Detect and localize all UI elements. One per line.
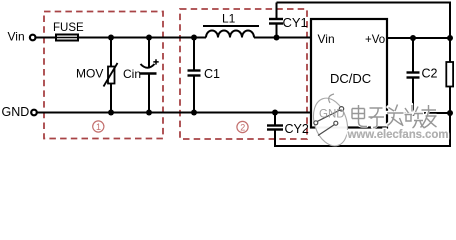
wire bottom rail: [37, 112, 311, 114]
junction C1 top: [191, 35, 197, 41]
svg-text:C2: C2: [422, 67, 438, 81]
svg-text:C1: C1: [204, 67, 220, 81]
watermark chinese text: [352, 104, 437, 128]
terminal GND: [31, 110, 37, 116]
svg-text:FUSE: FUSE: [53, 22, 84, 34]
junction Cin top: [146, 35, 152, 41]
wire +Vo rail: [387, 37, 451, 39]
svg-text:2: 2: [240, 123, 245, 133]
capacitor CY1: [276, 3, 278, 20]
svg-text:Cin: Cin: [123, 67, 141, 81]
dc-dc converter U1: [311, 19, 387, 128]
watermark logo mascot: [308, 94, 354, 150]
capacitor CY2: [274, 113, 276, 126]
capacitor C2: [412, 38, 414, 73]
junction MOV bottom: [108, 110, 114, 116]
svg-text:GND: GND: [2, 105, 30, 119]
capacitor C1: [193, 38, 195, 71]
svg-text:www.elecfans.com: www.elecfans.com: [347, 129, 449, 141]
wire top rail: [37, 37, 312, 39]
junction output return right: [447, 110, 453, 116]
junction CY2 top: [272, 110, 278, 116]
svg-text:Vin: Vin: [8, 30, 25, 44]
resistor load RL: [446, 62, 453, 87]
svg-text:CY1: CY1: [283, 15, 308, 30]
dashed box region 2: [180, 9, 307, 139]
junction C2 bottom: [410, 110, 415, 115]
inductor L1: [206, 31, 254, 38]
junction C2 top: [410, 35, 416, 41]
capacitor Cin: [148, 38, 150, 68]
fuse F1: [56, 35, 78, 41]
wire output bottom rail: [387, 112, 450, 114]
wire right side down: [275, 38, 450, 147]
dashed box region 1: [44, 12, 163, 139]
wire MOV branch: [110, 38, 112, 113]
svg-text:MOV: MOV: [76, 67, 103, 81]
svg-text:1: 1: [96, 122, 101, 132]
svg-text:CY2: CY2: [285, 122, 309, 136]
varistor MOV: [108, 67, 115, 84]
node label 1 circled: [93, 121, 104, 132]
node label 2 circled: [237, 121, 248, 132]
junction CY1 bottom: [274, 35, 280, 41]
junction +Vo right: [447, 35, 453, 41]
junction MOV top: [108, 35, 114, 41]
svg-text:+Vo: +Vo: [365, 34, 385, 46]
svg-text:Vin: Vin: [318, 32, 335, 46]
junction C1 bottom: [191, 110, 197, 116]
junction Cin bottom: [146, 110, 152, 116]
terminal Vin: [30, 35, 36, 41]
svg-text:L1: L1: [222, 12, 236, 26]
svg-text:GND: GND: [319, 109, 345, 121]
wire chassis top: [277, 3, 451, 38]
svg-text:DC/DC: DC/DC: [330, 71, 371, 86]
